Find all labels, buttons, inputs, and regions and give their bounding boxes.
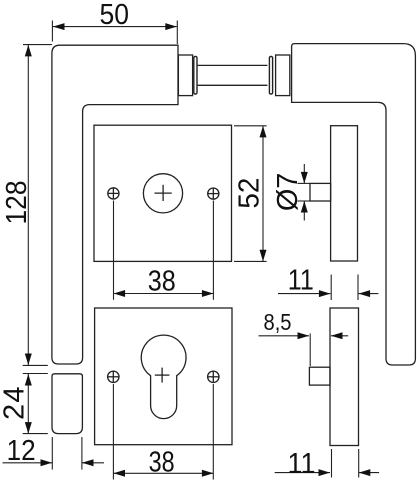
lower rosette square front view [95,308,232,445]
svg-text:24: 24 [0,386,30,420]
keyhole cross [155,374,170,376]
left bearing collar [178,55,192,96]
arrowhead 8,5 pointing left [331,332,343,339]
dim 128 line [27,45,29,365]
svg-text:8,5: 8,5 [264,309,292,335]
upper rosette square front view [94,125,232,261]
arrowhead d7 bottom pointing up [301,201,308,213]
lower rosette side view [330,308,359,446]
hub cross [155,192,172,194]
left washer ring [194,57,197,95]
arrowhead 24 top [25,374,32,386]
arrowhead d7 top pointing down [301,172,308,184]
right washer ring [269,57,272,95]
dim 38 upper line [114,293,214,295]
cylinder protrusion [309,367,330,385]
dim d7 line segments [303,164,305,183]
dim 50 extension lines [51,21,53,42]
dim 38 lower line [114,472,214,474]
upper right screw [208,188,219,199]
svg-text:50: 50 [100,0,130,31]
dim 12 extension lines [51,437,53,470]
dim d7 tick lines [298,182,311,184]
arrowhead 50 left [53,23,65,30]
upper rosette side view [331,126,358,261]
arrowhead 12 right pointing left [82,459,94,466]
svg-text:128: 128 [1,181,33,225]
arrowhead 11u pointing left [359,290,371,297]
dim 8,5 line segments [259,335,310,337]
handle grip end piece [52,374,82,434]
svg-text:11: 11 [288,448,316,480]
right bearing collar [276,55,290,96]
upper left screw [108,188,119,199]
dim 24 line [27,374,29,434]
arrowhead 52 top [260,126,267,137]
svg-text:Ø7: Ø7 [272,173,304,212]
arrowhead 38u left [114,290,126,297]
dim 52 extension lines [234,125,267,127]
arrowhead 50 right [165,23,177,30]
arrowhead 11l pointing right [319,469,331,476]
svg-text:52: 52 [234,178,266,209]
dim 8,5 extension line [309,334,311,367]
PZ cylinder keyhole [141,335,186,419]
dim 128 extension lines [23,44,52,46]
svg-text:38: 38 [148,266,176,298]
arrowhead 128 top [25,45,32,57]
arrowhead 24 bottom [25,422,32,434]
handle hub circle [143,174,182,213]
arrowhead 38l right [202,470,214,477]
dim 12 line segments [3,462,53,464]
dim 11 lower extension lines [331,449,333,478]
dim 38 upper extension lines [113,201,115,300]
arrowhead 11u pointing right [319,290,331,297]
dim 11 lower line segments [275,472,330,474]
arrowhead 38l left [114,470,126,477]
lever handle front view outline [52,45,178,364]
arrowhead 52 bottom [260,250,267,261]
lower left screw [108,371,119,382]
lower right screw [208,371,219,382]
dim 11 upper extension lines [330,275,332,301]
svg-text:11: 11 [288,265,314,297]
dim 24 extension lines [23,373,48,375]
arrowhead 8,5 pointing right [298,332,310,339]
arrowhead 11l pointing left [359,469,371,476]
arrowhead 12 left pointing right [41,459,53,466]
spindle shaft [198,64,268,66]
square spindle pin [310,183,331,201]
lever handle side view outline [292,44,416,365]
dim 11 upper line segments [278,293,330,295]
svg-text:38: 38 [149,447,175,479]
arrowhead 128 bottom [25,354,32,366]
arrowhead 38u right [202,290,214,297]
svg-text:12: 12 [7,435,36,467]
dim 50 line [53,26,177,28]
dim 38 lower extension lines [112,384,114,480]
dim 52 line [262,126,264,261]
